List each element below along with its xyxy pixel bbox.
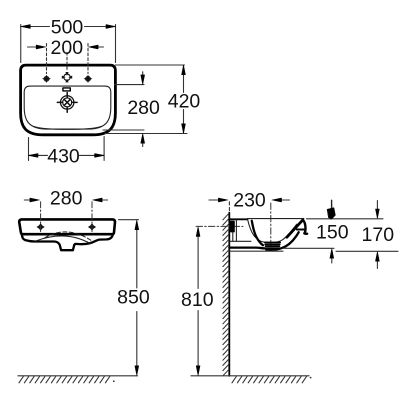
- svg-text:850: 850: [117, 287, 150, 309]
- dimension 500 arrow right: [106, 25, 116, 29]
- basin rim back edge (thin, across bowl): [247, 218, 304, 220]
- overflow slot: [63, 88, 70, 91]
- ref line 150/170 top: [307, 218, 384, 220]
- svg-text:420: 420: [168, 91, 201, 113]
- basin rim line (side): [229, 218, 247, 220]
- dimension 430 line: [29, 154, 105, 156]
- dimension 280 front arrow right: [101, 199, 108, 201]
- ref line outer-bottom (420/280 bottom): [105, 133, 187, 135]
- floor line right view: [191, 375, 309, 377]
- svg-text:280: 280: [50, 187, 83, 209]
- wall face line: [228, 213, 230, 376]
- dimension 850 arrow bottom: [135, 366, 139, 376]
- front hole centerline right: [91, 202, 93, 232]
- floor line left view: [18, 375, 138, 377]
- dimension 150 bottom arrow: [331, 258, 333, 263]
- faucet hole left: [42, 75, 51, 83]
- svg-text:500: 500: [51, 17, 84, 39]
- dimension 280 bottom arrow: [142, 143, 144, 147]
- svg-text:150: 150: [316, 221, 349, 243]
- dimension 230 dashed ref wall: [228, 202, 230, 211]
- dimension 200 dashed ref right: [87, 44, 89, 74]
- front rim slab: [19, 219, 115, 234]
- dimension 420 arrow top: [182, 65, 186, 75]
- ref line inner-bottom: [103, 129, 144, 131]
- drain ribs: [265, 243, 280, 249]
- wall hatching: [223, 213, 229, 375]
- dimension 230 arrow left: [209, 199, 220, 201]
- dimension 850 arrow top: [135, 220, 139, 230]
- ref line 850 top: [119, 219, 139, 221]
- dimension 200 dashed ref left: [46, 44, 48, 74]
- bowl underside right (thick): [266, 232, 299, 250]
- dimension 430 extension line right: [103, 137, 105, 161]
- ref line 170 bottom: [336, 250, 398, 252]
- basin back edge (thin): [235, 220, 237, 241]
- svg-text:810: 810: [181, 289, 214, 311]
- dimension 280 front arrow left: [24, 199, 31, 201]
- ref line outer-top (420 top): [115, 64, 184, 66]
- drain centerline (side): [270, 203, 272, 253]
- front bowl arc: [36, 236, 91, 244]
- ref line inner-top (280 top): [115, 84, 145, 86]
- dimension 170 bottom arrow: [376, 261, 378, 269]
- dimension 230 arrow right: [281, 199, 290, 201]
- front rim section right leg: [303, 220, 307, 234]
- floor hatching left view: [19, 377, 110, 383]
- dimension 810 arrow top: [196, 227, 200, 237]
- front hole mark right: [88, 223, 96, 231]
- dimension 500 extension line right: [115, 25, 117, 63]
- front rim section left leg: [287, 220, 303, 237]
- drain symbol: [57, 93, 77, 113]
- bowl interior curve (thin): [248, 220, 297, 243]
- center hole dashed ref: [66, 53, 68, 72]
- dimension 810 arrow bottom: [196, 366, 200, 376]
- faucet hole right: [84, 75, 93, 83]
- dimension 200 arrow left: [28, 46, 38, 48]
- dimension 810 line: [197, 235, 199, 368]
- dimension 170 top arrow: [376, 201, 378, 212]
- dimension 420 line: [183, 65, 185, 133]
- front hole centerline left: [40, 202, 42, 232]
- dimension 280 top arrow: [142, 72, 144, 76]
- dimension 200 arrow right: [98, 46, 104, 48]
- bracket lower line: [232, 232, 234, 241]
- floor hatch end dot right: [310, 377, 312, 379]
- dimension 420 arrow bottom: [182, 124, 186, 134]
- basin inner bowl (plan): [24, 86, 111, 129]
- dimension 500 extension line left: [20, 25, 22, 63]
- svg-text:430: 430: [47, 146, 80, 168]
- dimension 500 line: [21, 26, 116, 28]
- ref line under-basin (170 level): [230, 250, 284, 252]
- faucet hole center: [62, 72, 72, 82]
- front hole mark left: [37, 223, 45, 231]
- svg-text:280: 280: [127, 97, 160, 119]
- svg-text:170: 170: [362, 224, 395, 246]
- svg-text:200: 200: [51, 37, 84, 59]
- basin back underside edge (thin): [229, 240, 251, 242]
- front rim section crossbar: [297, 229, 304, 231]
- bowl section cut curve (thick): [252, 221, 263, 245]
- floor hatching right view: [232, 377, 307, 383]
- front underside outline: [22, 234, 113, 250]
- svg-text:230: 230: [233, 190, 266, 212]
- basin outer rim (plan): [21, 65, 116, 135]
- basin bottom surface line (plan): [34, 126, 102, 129]
- dimension 500 arrow left: [21, 25, 31, 29]
- dimension 850 line: [136, 228, 138, 368]
- dimension 430 extension line left: [28, 138, 30, 161]
- dimension 430 arrow left: [29, 154, 39, 158]
- floor hatch end dot left: [113, 380, 115, 382]
- ref line 150 bottom: [283, 247, 334, 249]
- mounting bracket: [230, 221, 235, 233]
- dimension 430 arrow right: [95, 154, 105, 158]
- mounting centerline (810 top ref, dash-dot): [196, 225, 243, 227]
- dimension 150 top arrow (bold): [331, 200, 333, 208]
- basin bottom against wall (thick): [229, 246, 264, 249]
- front hidden bowl arc (dashed): [45, 232, 93, 241]
